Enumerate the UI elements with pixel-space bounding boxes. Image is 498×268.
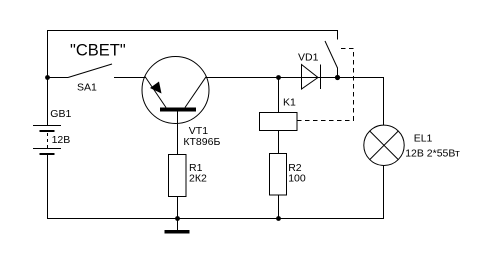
wire K1 coil lead <box>278 78 280 113</box>
svg-text:"СВЕТ": "СВЕТ" <box>70 42 126 60</box>
wire base lead <box>177 112 179 156</box>
wire right rail upper <box>383 77 385 126</box>
wire switch to transistor <box>114 77 146 79</box>
switch SA1 <box>68 64 112 78</box>
svg-text:2К2: 2К2 <box>189 172 207 184</box>
wire left rail upper <box>47 30 49 126</box>
node collector/K1 tap <box>276 75 281 80</box>
svg-text:SA1: SA1 <box>77 82 97 94</box>
relay coil K1 <box>260 113 298 131</box>
svg-text:12В: 12В <box>52 134 71 146</box>
ground <box>165 218 190 234</box>
svg-text:K1: K1 <box>283 97 296 109</box>
svg-text:100: 100 <box>288 173 306 185</box>
wire right rail lower <box>383 166 385 220</box>
wire R2 to bottom <box>278 195 280 219</box>
resistor R1 <box>169 155 187 197</box>
wire bottom rail <box>47 218 384 220</box>
node R1 bottom <box>175 216 180 221</box>
svg-text:12В 2*55Вт: 12В 2*55Вт <box>405 148 460 160</box>
mechanical link dashed <box>297 49 354 121</box>
svg-text:VD1: VD1 <box>298 52 319 64</box>
wire coil to R2 <box>278 131 280 155</box>
resistor R2 <box>270 154 287 196</box>
svg-text:GB1: GB1 <box>50 108 71 120</box>
relay contact K1.1 <box>325 31 338 79</box>
svg-text:EL1: EL1 <box>414 133 433 145</box>
node R2 bottom <box>276 216 281 221</box>
node switch tap <box>45 75 50 80</box>
wire left rail lower <box>47 155 49 219</box>
diode VD1 <box>302 65 321 90</box>
wire collector row <box>206 77 384 79</box>
lamp EL1 <box>364 125 404 165</box>
node contact bottom <box>335 75 340 80</box>
wire switch branch <box>47 77 68 79</box>
battery GB1 <box>33 126 61 156</box>
svg-text:КТ896Б: КТ896Б <box>183 136 220 148</box>
transistor VT1 <box>142 57 209 124</box>
wire R1 to bottom <box>177 197 179 220</box>
wire top rail <box>47 30 338 32</box>
